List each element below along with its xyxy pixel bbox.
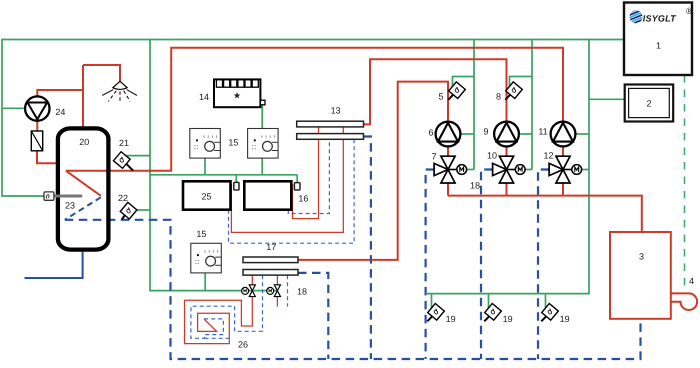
wire green pump 9 link [519, 133, 532, 135]
svg-text:11: 11 [538, 127, 547, 137]
valve 12 three-way with motor [549, 156, 582, 183]
valve 18b with motor [267, 285, 281, 297]
filter below pump 24 [31, 131, 42, 151]
wire green group3 riser x589 with sensor 19 bus [427, 40, 589, 294]
connector on radiator 25 [234, 182, 239, 190]
wire green sensor 19c stub [545, 294, 547, 308]
svg-text:7: 7 [431, 152, 436, 162]
pipe red pump 11 to valve 12 [562, 146, 564, 156]
sensor 19b [484, 303, 501, 321]
svg-text:14: 14 [199, 92, 209, 102]
burner loop 4 on boiler 3 [671, 293, 697, 310]
pipe red riser into tank top [82, 65, 84, 127]
pipe red valve 12 down [562, 183, 564, 196]
wire green connector 16 stub [296, 175, 298, 183]
pipe blue dashed valve 12 return [538, 170, 549, 360]
radiator (second) [244, 181, 291, 209]
pipe red manifold 13 to radiator 16 [293, 139, 319, 218]
svg-text:26: 26 [238, 340, 248, 350]
pump 11 [551, 122, 576, 147]
pipe blue thin dashed radiator 16 return [288, 139, 329, 213]
valve 10 three-way with motor [493, 156, 525, 183]
sensor 5 [448, 82, 465, 100]
manifold 17 supply bar [243, 257, 298, 263]
svg-text:15: 15 [196, 229, 206, 239]
pipe blue dashed manifold 13 return [364, 137, 371, 360]
pipe red valve 18b stubs [276, 275, 278, 306]
pipe red pump 6 to valve 7 [447, 146, 449, 156]
wire green to pump 24 [2, 107, 25, 109]
svg-text:10: 10 [487, 150, 497, 160]
wire green valve 10 motor link [525, 169, 532, 171]
pipe red manifold 13 to pump 9 [364, 59, 507, 124]
pipe red pump 24 to filter [36, 121, 38, 131]
svg-text:13: 13 [331, 105, 341, 115]
svg-text:22: 22 [118, 193, 128, 203]
manifold 17 return bar [243, 270, 298, 276]
wire green valve 7 motor link [467, 169, 474, 171]
pipe blue dashed diagonal inside tank 20 [65, 197, 101, 220]
svg-text:1: 1 [656, 41, 661, 51]
wire green sensor 22 link [137, 209, 151, 211]
svg-text:2: 2 [646, 99, 651, 109]
svg-text:25: 25 [201, 192, 211, 202]
wire green thermostat 15b drop [261, 158, 263, 175]
box 3 boiler [610, 232, 671, 319]
wire green sensor riser x150 [150, 40, 277, 291]
svg-text:24: 24 [55, 107, 65, 117]
sensor 23 immersion probe [44, 192, 81, 200]
wire green thermostat 15a drop [204, 158, 206, 175]
wire green sensor 5 link [453, 77, 475, 87]
pipe blue dashed main return tank to boiler 3 [65, 220, 641, 359]
svg-text:16: 16 [298, 193, 308, 203]
unit 14 controller [214, 79, 265, 107]
svg-text:9: 9 [483, 127, 488, 137]
wire green dashed box1 to burner 4 [684, 75, 686, 291]
connector 16 [294, 183, 300, 190]
pipe blue thin dashed floor coil 26 return [191, 275, 263, 338]
pipe blue thin dashed radiator 25 return [229, 139, 355, 243]
pipe red manifold 13 to radiator 25 [231, 139, 343, 232]
pipe red pump 9 to valve 10 [506, 146, 508, 156]
manifold 13 supply bar [297, 121, 364, 127]
pipe red manifold 17 to valve 18a [251, 275, 253, 284]
shower head [102, 81, 137, 102]
wire green sensor 19a stub [431, 294, 433, 308]
manifold 13 return bar [297, 134, 364, 140]
wire green connector 25 stub [235, 175, 237, 183]
wire green sensor 21 link [126, 155, 150, 157]
pipe blue dashed valve 10 return [481, 170, 493, 360]
pump 6 [436, 122, 461, 147]
pump 24 [25, 96, 49, 120]
svg-text:21: 21 [119, 138, 129, 148]
box 1 ISYGLT controller [624, 3, 693, 76]
thermostat 15b [248, 129, 279, 159]
svg-text:5: 5 [438, 92, 443, 102]
svg-text:ISYGLT: ISYGLT [643, 13, 677, 23]
pipe blue dashed manifold 17 return [298, 273, 328, 359]
sensor 22 [120, 202, 137, 219]
svg-text:17: 17 [266, 242, 276, 252]
wire green sensor 8 link [510, 77, 533, 87]
svg-text:3: 3 [639, 251, 644, 261]
svg-text:12: 12 [543, 150, 553, 160]
tank 20 [58, 128, 109, 249]
wire green valve 12 motor link [582, 169, 589, 171]
svg-text:18: 18 [470, 181, 480, 191]
pipe red valve 18a to floor coil 26 [185, 297, 253, 344]
sensor 21 [113, 152, 133, 171]
wire green thermostat 15c drop [204, 273, 206, 291]
radiator 25 [183, 181, 231, 209]
wire green to box 2 [589, 98, 625, 100]
pipe blue tank cold water drain [25, 252, 83, 278]
wire green pump 11 link [575, 133, 589, 135]
pump 9 [494, 122, 519, 147]
wire green unit 14 to thermostat 15b [261, 105, 263, 129]
pipe red manifold 13 bar stubs [319, 127, 344, 134]
pipe red filter to tank [37, 151, 58, 164]
pipe blue thin dashed floor coil 26 bottom row [205, 337, 233, 339]
sensor 8 [505, 82, 522, 100]
pipe red manifold 17 to pump 6 [298, 82, 448, 260]
svg-text:20: 20 [79, 137, 89, 147]
wire green group1 riser x474 [473, 40, 475, 170]
pipe blue dashed valve 7 return [426, 170, 435, 360]
svg-text:15: 15 [228, 137, 238, 147]
pipe red common supply to boiler 3 [448, 196, 642, 232]
thermostat 15c [191, 243, 222, 273]
svg-text:®: ® [686, 6, 693, 16]
svg-text:19: 19 [560, 314, 570, 324]
svg-text:19: 19 [446, 314, 456, 324]
valve 18a with motor [242, 285, 256, 297]
box 2 display [625, 85, 674, 122]
svg-text:23: 23 [65, 201, 75, 211]
pipe red pump 24 top loop [37, 90, 83, 96]
pipe red tank supply to pump 11 [66, 48, 563, 171]
svg-text:19: 19 [503, 314, 513, 324]
pipe red to shower [83, 65, 120, 81]
svg-text:4: 4 [689, 276, 694, 286]
svg-text:8: 8 [496, 92, 501, 102]
wire green thermostat bus y174.8 [150, 174, 297, 176]
sensor 19a [427, 303, 444, 321]
wire green control bus border (top + left) [2, 40, 624, 197]
thermostat 15a [190, 129, 221, 159]
pipe blue thin dashed valve 18b return stub [287, 275, 289, 306]
wire green group2 riser x532 [531, 40, 533, 170]
svg-text:18: 18 [297, 287, 307, 297]
pipe red valve 7 down [447, 183, 449, 196]
pipe red diagonal inside tank 20 [66, 171, 101, 196]
svg-text:6: 6 [428, 128, 433, 138]
wire green sensor 19b stub [488, 294, 490, 308]
pipe red valve 10 down [506, 183, 508, 196]
valve 7 three-way with motor [434, 156, 467, 183]
wire green pump 6 link [460, 133, 474, 135]
sensor 19c [541, 303, 558, 321]
svg-text:★: ★ [233, 91, 241, 101]
